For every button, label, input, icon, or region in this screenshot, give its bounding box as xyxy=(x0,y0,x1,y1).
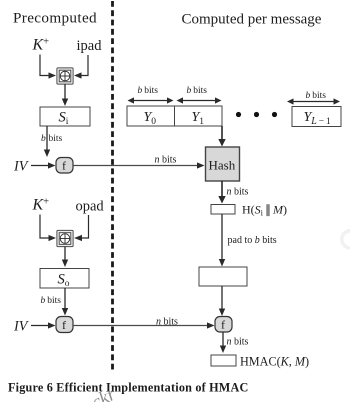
wire XOR to S_o xyxy=(62,247,68,268)
svg-text:bbits: bbits xyxy=(41,296,62,306)
wire H box to pad box xyxy=(219,214,225,267)
wire IV to f (lower) xyxy=(31,322,56,328)
watermark arc fragment xyxy=(342,231,350,248)
Hash box xyxy=(206,147,240,181)
wire lower f to right f with n bits xyxy=(73,322,215,328)
svg-text:nbits: nbits xyxy=(156,317,178,328)
svg-text:f: f xyxy=(62,318,66,332)
function f (upper left) xyxy=(56,158,73,174)
svg-text:nbits: nbits xyxy=(227,337,249,348)
svg-text:ipad: ipad xyxy=(77,38,103,54)
svg-text:bbits: bbits xyxy=(138,86,159,96)
watermark xyxy=(66,383,120,402)
wire Hash to H box xyxy=(218,181,225,204)
wire K+ to XOR (lower) xyxy=(40,215,56,242)
measure arrow b bits Y_L-1 xyxy=(287,98,340,104)
measure arrow b bits Y0 xyxy=(128,97,174,103)
svg-text:H(Si∥M): H(Si∥M) xyxy=(242,203,287,218)
pad box xyxy=(199,267,247,286)
wire f to HMAC box xyxy=(220,332,226,353)
wire pad box to f (right) xyxy=(219,286,225,316)
measure arrow b bits Y1 xyxy=(177,97,222,103)
svg-text:IV: IV xyxy=(13,319,30,335)
svg-text:f: f xyxy=(221,318,225,332)
wire IV to f (upper) xyxy=(31,162,56,168)
XOR ipad xyxy=(57,68,73,84)
wire K+ to XOR (upper) xyxy=(40,55,56,79)
svg-text:opad: opad xyxy=(76,199,105,215)
wire f to Hash with n bits xyxy=(73,162,205,168)
svg-text:Figure 6 Efficient Implementat: Figure 6 Efficient Implementation of HMA… xyxy=(8,381,249,395)
wire XOR to S_i xyxy=(62,84,68,106)
wire S_i to f (upper) xyxy=(44,126,50,157)
svg-text:nbits: nbits xyxy=(155,155,177,166)
function f (right) xyxy=(215,317,232,333)
wire opad to XOR (lower) xyxy=(74,215,89,241)
svg-text:nbits: nbits xyxy=(227,187,249,198)
svg-text:Precomputed: Precomputed xyxy=(13,10,97,27)
svg-text:HMAC(K, M): HMAC(K, M) xyxy=(240,355,309,369)
svg-text:f: f xyxy=(62,159,66,173)
box HMAC output xyxy=(211,355,236,366)
svg-text:bbits: bbits xyxy=(306,91,327,101)
box S_o xyxy=(40,269,89,290)
box Y_L-1 xyxy=(292,107,341,127)
ellipsis dots xyxy=(236,112,277,117)
box H(Si||M) xyxy=(211,205,235,215)
function f (lower left) xyxy=(56,317,73,333)
box Y1 xyxy=(175,106,223,127)
box S_i xyxy=(40,107,90,127)
wire Y1 to Hash xyxy=(218,126,225,147)
svg-text:pad to b bits: pad to b bits xyxy=(228,235,277,246)
svg-text:IV: IV xyxy=(13,159,30,175)
dashed divider xyxy=(111,1,114,373)
svg-text:bbits: bbits xyxy=(187,86,208,96)
wire S_o to f (lower) xyxy=(62,288,68,316)
wire ipad to XOR (upper) xyxy=(74,55,88,79)
svg-text:Computed per message: Computed per message xyxy=(182,12,322,28)
box Y0 xyxy=(127,106,175,127)
XOR opad xyxy=(57,230,73,246)
svg-text:bbits: bbits xyxy=(41,134,63,144)
svg-text:Hash: Hash xyxy=(209,158,236,173)
